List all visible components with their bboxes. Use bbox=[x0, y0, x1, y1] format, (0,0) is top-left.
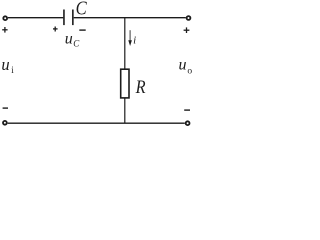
terminal bottom-left bbox=[3, 121, 7, 125]
current arrow i bbox=[128, 30, 132, 46]
polarity minus right bbox=[184, 109, 190, 111]
label C bbox=[76, 0, 88, 19]
svg-text:R: R bbox=[135, 76, 146, 97]
polarity plus left bbox=[2, 27, 7, 33]
terminal bottom-right bbox=[186, 121, 190, 125]
wire bottom bbox=[8, 122, 185, 124]
svg-text:i: i bbox=[133, 34, 136, 46]
wire middle vertical lower bbox=[124, 98, 126, 123]
polarity minus left bbox=[3, 107, 8, 109]
svg-text:o: o bbox=[187, 67, 192, 77]
terminal top-right bbox=[187, 16, 191, 20]
label uo bbox=[179, 57, 193, 77]
label ui bbox=[1, 55, 14, 75]
svg-text:u: u bbox=[179, 57, 187, 74]
wire top-right segment bbox=[74, 17, 186, 19]
svg-text:C: C bbox=[76, 0, 88, 19]
polarity plus capacitor bbox=[53, 27, 58, 32]
svg-text:u: u bbox=[1, 55, 9, 74]
terminal top-left bbox=[3, 16, 7, 20]
capacitor C bbox=[64, 10, 73, 26]
polarity minus capacitor bbox=[79, 29, 85, 31]
label R bbox=[135, 76, 146, 97]
resistor R bbox=[121, 69, 129, 98]
wire top-left segment bbox=[8, 17, 63, 19]
svg-text:C: C bbox=[73, 39, 80, 49]
label uC bbox=[65, 31, 81, 49]
polarity plus right bbox=[184, 27, 190, 33]
svg-text:u: u bbox=[65, 31, 73, 48]
node junction / wire middle vertical upper bbox=[124, 18, 126, 69]
